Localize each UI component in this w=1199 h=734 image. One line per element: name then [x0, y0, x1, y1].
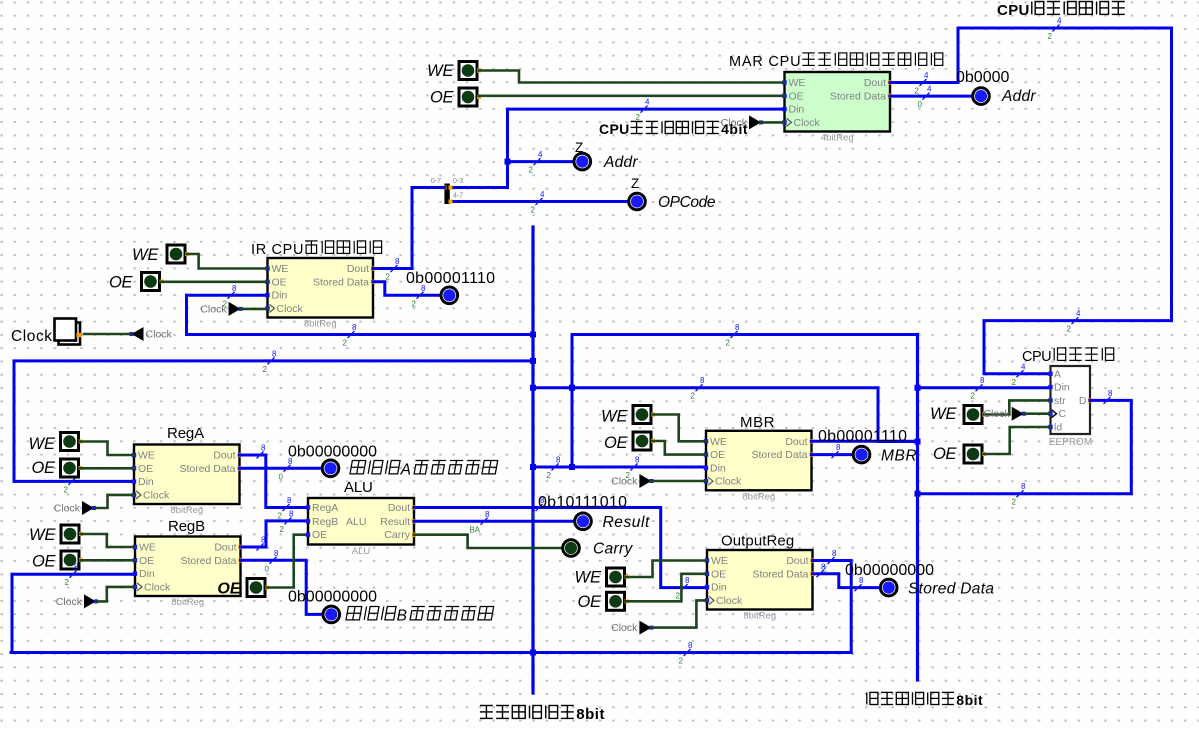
svg-text:RegB: RegB [168, 518, 205, 535]
wire OutputReg OE [626, 574, 707, 602]
wire RegA Clock [94, 495, 134, 508]
wire IR WE from button [187, 254, 268, 269]
svg-text:4: 4 [540, 190, 545, 199]
svg-text:Dout: Dout [214, 542, 236, 554]
register RegA (8bitReg) [132, 445, 242, 517]
svg-text:8: 8 [735, 323, 740, 332]
svg-text:8: 8 [1021, 482, 1026, 491]
bus width marker 8 ALU Result [469, 510, 490, 535]
wire external data bus vertical [916, 335, 919, 681]
bus width marker 8 link upper [726, 323, 740, 348]
svg-text:2: 2 [971, 392, 976, 401]
svg-text:2: 2 [529, 166, 534, 175]
svg-text:2: 2 [280, 525, 285, 534]
output probe IR value [441, 287, 458, 304]
svg-text:OE: OE [312, 529, 327, 541]
label OPCode probe [658, 194, 716, 211]
label: RegB title [168, 518, 205, 535]
svg-text:0b00001110: 0b00001110 [818, 428, 907, 445]
svg-text:Carry: Carry [593, 541, 633, 558]
svg-text:Din: Din [138, 476, 154, 488]
svg-text:Result: Result [380, 516, 410, 528]
svg-text:8: 8 [635, 456, 640, 465]
svg-text:Clock: Clock [54, 503, 81, 515]
label OE (RegA button) [32, 459, 56, 477]
svg-text:2: 2 [1012, 498, 1017, 507]
wire IR Stored Data to probe [373, 282, 440, 296]
button OE (MAR) [459, 88, 481, 106]
label WE (OutputReg button) [575, 569, 602, 587]
svg-text:2: 2 [278, 512, 283, 521]
register MBR (8bitReg) [704, 431, 814, 503]
wire MAR Clock [761, 121, 785, 124]
svg-text:Clock: Clock [11, 328, 52, 345]
label OE (EEPROM button) [933, 445, 957, 463]
bus width marker 8 OutputReg Dout [823, 549, 837, 574]
tunnel Clock at IR [200, 302, 242, 316]
clock generator Clock [55, 319, 82, 345]
svg-text:8: 8 [261, 444, 266, 453]
wire ALU Dout to OutputReg Din [414, 508, 707, 588]
bus width marker 8 RegA Dout [257, 444, 267, 459]
svg-text:Carry: Carry [384, 529, 410, 541]
bus width marker 8 EEPROM D [1104, 389, 1114, 404]
button WE (MBR) [633, 406, 655, 424]
svg-text:8: 8 [352, 323, 357, 332]
bus width marker 4 on MAR Din [636, 98, 650, 123]
svg-text:8bit: 8bit [956, 692, 983, 708]
svg-text:8: 8 [556, 456, 561, 465]
svg-text:0b00000000: 0b00000000 [288, 444, 377, 461]
label: MBR title [740, 414, 775, 431]
svg-text:0b0000: 0b0000 [956, 69, 1009, 86]
output probe RegB test [323, 606, 340, 623]
svg-text:WE: WE [930, 405, 957, 423]
svg-text:RegA: RegA [167, 425, 204, 442]
label: CPU external memory title [1022, 348, 1114, 365]
output probe Carry (single bit) [563, 540, 580, 557]
svg-text:2: 2 [343, 339, 348, 348]
svg-text:Din: Din [789, 104, 805, 116]
svg-text:Stored Data: Stored Data [180, 555, 236, 567]
svg-text:MAR CPU: MAR CPU [729, 54, 801, 70]
svg-text:0: 0 [279, 472, 284, 481]
svg-text:Clock: Clock [143, 489, 170, 501]
output probe RegA test [322, 460, 339, 477]
register OutputReg (8bitReg) [705, 550, 815, 622]
label WE (EEPROM button) [930, 405, 957, 423]
svg-text:OE: OE [711, 568, 726, 580]
bus width marker 8 on IR Din [223, 284, 237, 309]
svg-text:2: 2 [915, 87, 920, 96]
svg-text:8bitReg: 8bitReg [170, 505, 203, 516]
net label CPU external address bus [997, 2, 1125, 20]
bus width marker 8 EEPROM Din [971, 376, 985, 401]
wire EEPROM OE to ld [984, 427, 1051, 454]
svg-text:B: B [397, 608, 407, 625]
svg-text:A: A [1054, 368, 1061, 380]
bus width marker 8 ALU RegA in [278, 496, 292, 521]
wire RegB Stored Data to probe [241, 560, 323, 614]
svg-text:WE: WE [427, 62, 454, 80]
label Z above Addr probe [575, 140, 583, 155]
label: IR CPU instruction register title [251, 241, 382, 258]
svg-text:8bitReg: 8bitReg [304, 319, 337, 330]
svg-text:2: 2 [1012, 378, 1017, 387]
bus width marker 8 bottom bus [679, 641, 693, 666]
svg-text:OE: OE [32, 459, 56, 477]
svg-text:Clock: Clock [56, 596, 83, 608]
svg-text:OE: OE [578, 593, 602, 611]
wire OutputReg Clock [651, 600, 707, 627]
bus width marker 4 on EEPROM A wire [1012, 362, 1026, 387]
button WE (RegA) [61, 433, 83, 451]
label OE (ALU enable button) [217, 581, 241, 598]
value label 0b00001110 (MBR) [818, 428, 907, 445]
svg-text:8: 8 [700, 376, 705, 385]
label OE (MBR button) [604, 434, 628, 452]
svg-text:Clock: Clock [794, 117, 821, 129]
button WE (MAR) [459, 62, 481, 80]
junction external bus / EEPROM Din [915, 385, 921, 391]
bus width marker 8 MBR Stored [832, 443, 842, 458]
wire RegB Din from internal bus [12, 573, 135, 576]
svg-text:Stored Data: Stored Data [313, 276, 369, 288]
label Addr (top output) [1001, 88, 1036, 105]
svg-text:CPU: CPU [1022, 349, 1052, 365]
svg-text:OE: OE [430, 89, 454, 107]
svg-text:0-7: 0-7 [431, 178, 441, 185]
label Clock (source) [11, 328, 52, 345]
label RegA test output (Chinese) [350, 461, 498, 479]
value label 0b00000000 (RegA) [288, 444, 377, 461]
button OE (OutputReg) [607, 592, 629, 610]
label OE (MAR button) [430, 89, 454, 107]
svg-text:ALU: ALU [344, 479, 373, 496]
wire RegB Clock [96, 587, 135, 602]
label Stored Data probe [908, 581, 994, 598]
svg-text:Clock: Clock [983, 408, 1010, 420]
svg-text:8: 8 [1108, 389, 1113, 398]
svg-text:WE: WE [575, 569, 602, 587]
svg-text:str: str [1054, 395, 1066, 407]
value label 0b00001110 (IR) [406, 270, 495, 287]
svg-text:8bitReg: 8bitReg [743, 611, 776, 622]
svg-text:Clock: Clock [611, 622, 638, 634]
wire ALU Result to probe [414, 520, 573, 523]
wire internal addr bus vertical [506, 109, 509, 187]
net label internal data bus 8bit [480, 706, 605, 724]
wire EEPROM Din [918, 386, 1051, 389]
label OE (RegB button) [32, 553, 56, 571]
label OE (OutputReg button) [578, 593, 602, 611]
svg-text:Dout: Dout [213, 450, 235, 462]
svg-text:WE: WE [139, 542, 156, 554]
label RegB test output (Chinese) [346, 607, 494, 625]
svg-text:0: 0 [918, 100, 923, 109]
wire splitter out 0-3 [450, 186, 508, 189]
wire OutputReg Dout to bottom bus [813, 561, 852, 653]
wire branch to Addr probe [508, 160, 573, 163]
svg-text:BA: BA [469, 525, 480, 534]
svg-text:4bitReg: 4bitReg [821, 133, 854, 144]
svg-text:RegA: RegA [312, 502, 338, 514]
label: ALU title [344, 479, 373, 496]
bus width marker 8 RegA bus [263, 349, 277, 374]
svg-text:4: 4 [1076, 309, 1081, 318]
svg-text:OE: OE [933, 445, 957, 463]
svg-text:4: 4 [927, 85, 932, 94]
svg-text:D: D [1079, 395, 1087, 407]
bus width marker 8 upper bus [343, 323, 357, 348]
svg-text:2: 2 [1048, 32, 1053, 41]
svg-text:OE: OE [789, 90, 804, 102]
svg-text:OE: OE [272, 276, 287, 288]
wire internal data bus upper (IR to center) [187, 333, 534, 336]
bus width marker 4 on bus near memory [1067, 309, 1081, 334]
svg-text:Z: Z [631, 176, 639, 191]
wire splitter input vertical from IR Dout [411, 188, 414, 269]
svg-text:8bit: 8bit [576, 706, 604, 723]
svg-text:2: 2 [386, 273, 391, 282]
bus width marker 8 RegB Dout [257, 536, 267, 551]
svg-text:4-7: 4-7 [453, 193, 463, 200]
wire splitter input [412, 186, 444, 189]
label WE (RegA button) [29, 435, 56, 453]
junction center bus / RegA bus [530, 358, 536, 364]
wire MBR Dout to external bus [812, 440, 918, 443]
svg-text:8: 8 [688, 641, 693, 650]
svg-text:0: 0 [265, 564, 270, 573]
svg-text:8: 8 [395, 257, 400, 266]
wire external bus link upper [572, 333, 918, 336]
svg-text:0b10111010: 0b10111010 [538, 494, 627, 511]
output probe MBR [853, 446, 870, 463]
bus width marker 8 RegB Stored [265, 549, 279, 574]
svg-text:4: 4 [645, 98, 650, 107]
label MBR probe [881, 448, 917, 465]
wire EEPROM WE to str [984, 400, 1051, 414]
svg-text:Dout: Dout [786, 555, 808, 567]
wire IR Din from internal data bus [187, 294, 268, 297]
svg-text:0-3: 0-3 [453, 178, 463, 185]
svg-text:Stored Data: Stored Data [908, 581, 994, 598]
svg-text:Din: Din [711, 582, 727, 594]
junction external bus / EEPROM D [915, 491, 921, 497]
wire bus to RegA Din [14, 361, 533, 482]
svg-text:Result: Result [603, 514, 650, 531]
svg-text:OPCode: OPCode [658, 194, 716, 211]
junction internal addr bus / Addr probe [505, 159, 511, 165]
net label external data bus 8bit [867, 692, 983, 708]
svg-text:Stored Data: Stored Data [751, 449, 807, 461]
wire RegA WE [80, 442, 134, 456]
svg-text:Din: Din [1054, 382, 1070, 394]
bus width marker 8 OutputReg Stored pin [817, 562, 827, 577]
svg-text:2: 2 [1067, 325, 1072, 334]
svg-text:8: 8 [74, 563, 79, 572]
tunnel Clock at MBR [611, 474, 653, 488]
bus width marker 4 on OPCode wire [531, 190, 545, 215]
output probe Addr (zero state) [574, 153, 591, 170]
svg-text:2: 2 [223, 299, 228, 308]
wire EEPROM D output to external bus [918, 400, 1132, 493]
junction link B end / MBR Din [569, 464, 575, 470]
svg-text:2: 2 [65, 578, 70, 587]
button OE (ALU output enable) [247, 579, 269, 597]
wire MAR OE from button [479, 95, 785, 98]
svg-text:C: C [1059, 408, 1067, 420]
button OE (IR) [142, 273, 164, 291]
svg-text:Clock: Clock [611, 476, 638, 488]
tunnel Clock source [130, 327, 173, 341]
svg-text:8: 8 [232, 284, 237, 293]
splitter 8bit to 4+4 [431, 178, 463, 204]
wire IR Dout to splitter [373, 267, 412, 270]
label WE (IR button) [132, 246, 159, 264]
wire clock to tunnel [84, 333, 132, 336]
tunnel Clock at RegA [54, 501, 96, 515]
wire IR Din vertical [185, 295, 188, 334]
svg-text:CPU: CPU [997, 2, 1029, 19]
svg-text:Din: Din [272, 290, 288, 302]
svg-text:Dout: Dout [347, 263, 369, 275]
bus width marker 8 RegA Stored [279, 457, 293, 482]
svg-text:WE: WE [711, 555, 728, 567]
label Carry probe [593, 541, 633, 558]
svg-text:WE: WE [601, 408, 628, 426]
value label 0b0000 [956, 69, 1009, 86]
label: RegA title [167, 425, 204, 442]
svg-text:WE: WE [789, 77, 806, 89]
svg-text:Dout: Dout [388, 502, 410, 514]
bus width marker 4 on top external bus [1048, 17, 1062, 42]
svg-text:2: 2 [64, 485, 69, 494]
wire RegB OE [81, 559, 136, 562]
svg-text:WE: WE [138, 450, 155, 462]
svg-text:Stored Data: Stored Data [179, 463, 235, 475]
button WE (IR) [167, 245, 189, 263]
svg-text:4bit: 4bit [721, 121, 748, 137]
svg-text:OE: OE [32, 553, 56, 571]
value label 0b10111010 (Result) [538, 494, 627, 511]
svg-text:Stored Data: Stored Data [830, 90, 886, 102]
svg-text:Clock: Clock [716, 595, 743, 607]
svg-text:4: 4 [538, 150, 543, 159]
svg-text:2: 2 [547, 471, 552, 480]
button OE (EEPROM) [964, 445, 986, 463]
svg-text:OutputReg: OutputReg [721, 533, 794, 550]
wire MBR OE [653, 441, 707, 455]
svg-text:Dout: Dout [785, 436, 807, 448]
wire RegB Din vertical to bottom bus [11, 574, 14, 652]
svg-text:Clock: Clock [144, 581, 171, 593]
svg-text:Addr: Addr [603, 154, 638, 171]
junction center bus / MBR Din [530, 464, 536, 470]
bus width marker 8 on IR Dout [386, 257, 400, 282]
svg-text:ALU: ALU [352, 546, 371, 557]
svg-text:RegB: RegB [312, 516, 338, 528]
label: OutputReg title [721, 533, 794, 550]
junction link B / MBR Dout row [569, 385, 575, 391]
ALU block U1 [306, 498, 416, 557]
label Result probe [603, 514, 650, 531]
EEPROM memory block [1048, 366, 1092, 448]
svg-text:WE: WE [29, 435, 56, 453]
wire MBR Clock [651, 480, 706, 483]
button WE (RegB) [61, 525, 83, 543]
label WE (MBR button) [601, 408, 628, 426]
label: MAR CPU internal address bus register title [729, 53, 943, 70]
wire ALU Carry to probe [414, 535, 562, 548]
svg-text:0b00000000: 0b00000000 [288, 589, 377, 606]
svg-text:8: 8 [821, 562, 826, 571]
svg-text:Clock: Clock [277, 303, 304, 315]
svg-text:2: 2 [676, 592, 681, 601]
bus width marker 8 EEPROM D bottom [1012, 482, 1026, 507]
button WE (OutputReg) [607, 568, 629, 586]
value label 0b00000000 (OutputReg) [845, 562, 934, 579]
svg-text:Din: Din [710, 462, 726, 474]
svg-text:8: 8 [272, 349, 277, 358]
wire MAR Stored Data to Addr output [890, 95, 971, 98]
wire MBR Stored Data to probe [812, 453, 853, 456]
output pin Addr (top) [973, 88, 990, 105]
svg-text:A: A [400, 462, 411, 479]
register IR (8bitReg) [265, 258, 375, 330]
svg-text:Stored Data: Stored Data [752, 568, 808, 580]
svg-text:OE: OE [109, 274, 133, 292]
bus width marker 8 OutputReg Din [676, 576, 690, 601]
wire IR OE from button [161, 280, 268, 283]
output probe Result [575, 513, 592, 530]
svg-text:8: 8 [289, 509, 294, 518]
svg-text:8: 8 [832, 549, 837, 558]
wire RegA Dout to ALU [240, 455, 309, 508]
tunnel Clock at OutputReg [611, 621, 653, 635]
wire splitter out 4-7 to OPCode [450, 200, 628, 203]
wire vertical link B [571, 335, 574, 468]
svg-text:Clock: Clock [715, 476, 742, 488]
svg-text:0b00001110: 0b00001110 [406, 270, 495, 287]
svg-text:MBR: MBR [740, 414, 775, 431]
wire RegA Stored Data to probe [240, 467, 322, 470]
svg-text:4: 4 [1057, 17, 1062, 26]
svg-text:Din: Din [139, 568, 155, 580]
svg-text:2: 2 [412, 299, 417, 308]
button OE (RegB) [61, 551, 83, 569]
tunnel Clock at EEPROM [983, 407, 1025, 421]
svg-text:8: 8 [685, 576, 690, 585]
label Z above OPCode probe [631, 176, 639, 191]
svg-text:8: 8 [261, 536, 266, 545]
svg-text:2: 2 [263, 365, 268, 374]
junction external bus / MBR Dout [915, 439, 921, 445]
svg-text:OE: OE [217, 581, 241, 598]
button OE (MBR) [633, 432, 655, 450]
svg-text:WE: WE [132, 246, 159, 264]
junction center bus / upper bus [530, 332, 536, 338]
svg-text:IR CPU: IR CPU [251, 242, 304, 258]
wire MBR Din bus [533, 466, 706, 469]
wire MBR WE [653, 415, 707, 442]
bus width marker 8 MBR Dout row [691, 376, 705, 401]
svg-text:2: 2 [531, 206, 536, 215]
svg-text:WE: WE [29, 526, 56, 544]
svg-text:2: 2 [531, 512, 536, 521]
bus width marker 4 on MAR Stored Data [918, 85, 932, 110]
svg-text:4: 4 [924, 71, 929, 80]
